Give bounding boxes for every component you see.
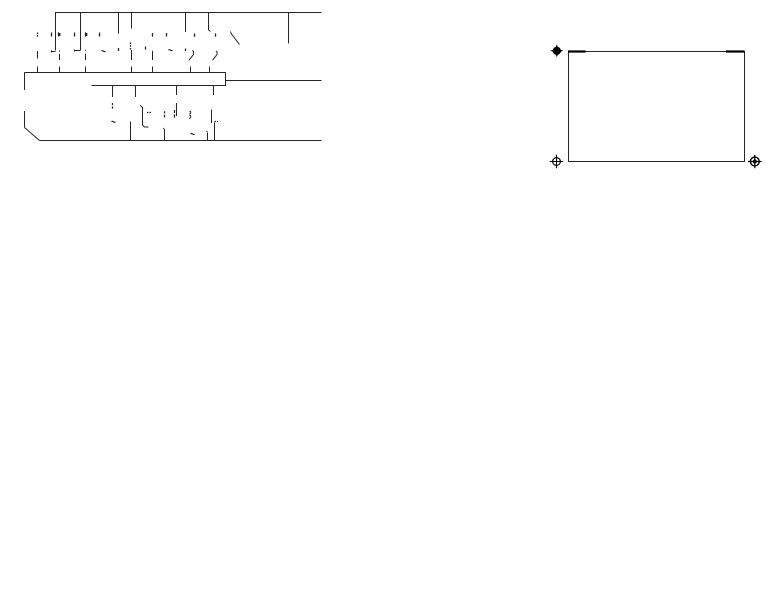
- wire seg C6: [176, 103, 178, 116]
- component mark C7: [189, 111, 190, 118]
- board edge thick mark left: [568, 50, 586, 52]
- pin label row1 c: [59, 32, 60, 36]
- pin label row1 b: [51, 33, 53, 37]
- pin label row1 g: [152, 33, 154, 37]
- wire drop V1 with foot: [51, 13, 56, 53]
- pin label row2 stack: [130, 42, 132, 49]
- wire seg C8: [211, 110, 213, 124]
- wire stub W6: [190, 67, 192, 73]
- contact blade diagonal: [231, 32, 240, 45]
- wire stub below bar B4: [213, 86, 215, 96]
- pin label row2 n: [185, 49, 187, 52]
- wire stub D3: [214, 123, 216, 141]
- wire drop V5: [185, 13, 187, 33]
- wire top bus: [55, 12, 322, 14]
- wire dashed W4: [131, 50, 133, 73]
- wire bottom bus: [40, 140, 322, 142]
- wire stub below bar B1: [112, 86, 114, 98]
- board outline rectangle: [569, 52, 745, 162]
- wire dashed W3: [85, 50, 87, 73]
- wire stub below bar B3: [176, 86, 178, 96]
- wire drop V6: [209, 13, 211, 32]
- pin label row1 f: [99, 33, 101, 37]
- component mark tilde C2: [112, 121, 116, 122]
- wire drop V3: [118, 13, 120, 34]
- pin label row2 tilde2: [169, 50, 173, 51]
- wire dashed W1: [37, 51, 39, 73]
- relay bracket K1: [140, 105, 148, 127]
- component mark C5: [174, 110, 176, 118]
- wire stub below bar B2: [135, 86, 137, 98]
- wire dashed W2: [59, 50, 61, 72]
- component mark C3: [147, 112, 151, 114]
- contact curve S2: [213, 51, 217, 60]
- pin label row1 a: [37, 33, 39, 37]
- pin label row1 i: [194, 33, 196, 36]
- wire right feed: [226, 80, 322, 82]
- wire drop V2 with foot: [74, 13, 81, 52]
- component mark C1: [112, 103, 114, 109]
- contact curve S1: [189, 50, 194, 60]
- pin label row2 tilde1: [102, 51, 106, 52]
- wire stub D4: [206, 132, 207, 141]
- pin label row1 j: [215, 33, 217, 36]
- enclosure left edge: [24, 73, 26, 91]
- wire dashed W5: [152, 51, 154, 73]
- component mark tilde C10: [191, 134, 195, 135]
- enclosure corner diagonal: [25, 128, 40, 141]
- connector bar body: [25, 73, 226, 86]
- pin label row2 k: [118, 48, 120, 51]
- enclosure left edge lower: [24, 111, 26, 128]
- pin label row1 d: [74, 33, 76, 37]
- wire drop V7: [288, 13, 290, 44]
- fiducial F1 filled: [550, 44, 563, 57]
- wire drop V4: [131, 13, 133, 29]
- pin label row1 e: [86, 32, 87, 36]
- wire stub D2: [163, 128, 164, 141]
- pin label row1 h: [166, 33, 168, 37]
- component mark C4: [164, 111, 166, 117]
- fiducial F3 dotted: [748, 155, 762, 169]
- fiducial F2 open: [550, 155, 564, 169]
- component mark C9: [215, 121, 219, 123]
- wire stub D1: [130, 122, 132, 141]
- pin label row2 m: [145, 47, 147, 50]
- board edge thick mark right: [726, 50, 745, 52]
- wire stub W7: [209, 67, 211, 73]
